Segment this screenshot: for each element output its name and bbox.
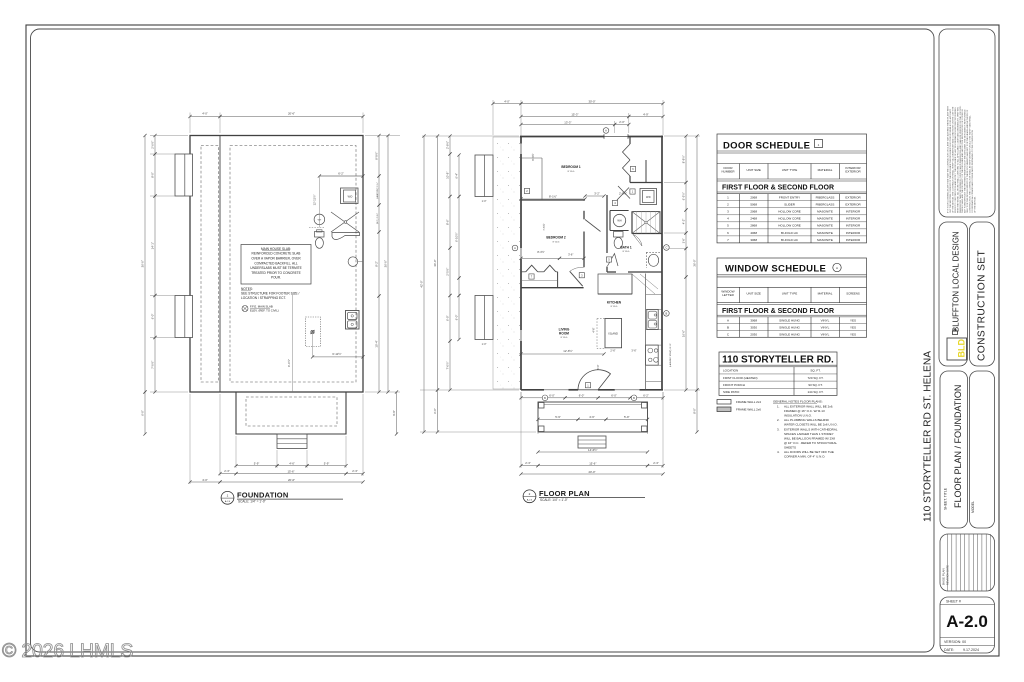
BLD logo [947,330,967,361]
designer name box BLUFFTON LOCAL DESIGN [939,222,968,366]
svg-text:B: B [666,312,668,316]
svg-text:8'-6": 8'-6" [446,219,450,225]
svg-text:POUR.: POUR. [271,276,281,280]
svg-text:WINDOW SCHEDULE: WINDOW SCHEDULE [725,264,826,275]
svg-text:6'-0": 6'-0" [433,408,437,414]
foundation water heater WH [314,214,325,225]
svg-text:SPACES LARGER THAN 1 STOREY: SPACES LARGER THAN 1 STOREY [784,432,834,436]
svg-text:3068: 3068 [750,319,757,323]
wall legend [717,400,761,412]
floor plan top dimensions [491,99,664,135]
floor plan left dimension chains [420,134,536,433]
svg-text:OF THE DESIGN.: OF THE DESIGN. [974,196,976,213]
svg-text:LOCATION / STRAPPING ECT.: LOCATION / STRAPPING ECT. [241,296,286,300]
110 storyteller rd area table [719,352,837,395]
bedroom 1 closet bifold door 6 [623,137,631,183]
svg-text:5'-9": 5'-9" [324,462,330,466]
svg-text:1'-0": 1'-0" [482,200,487,203]
svg-text:13'-3": 13'-3" [564,120,571,124]
svg-text:FIBERGLASS: FIBERGLASS [816,196,835,200]
finished floor elevation marker [242,305,279,313]
svg-text:8' CLG: 8' CLG [553,241,560,243]
bedroom 2 right wall and door 2 [583,211,585,267]
sheet number box A-2.0 [940,597,995,653]
svg-text:SHEET #: SHEET # [946,600,961,604]
svg-text:SINGLE HUNG: SINGLE HUNG [779,326,800,330]
svg-text:2'-6½": 2'-6½" [151,141,155,149]
svg-text:BATH 1: BATH 1 [620,246,632,250]
foundation bottom porch dimensions [188,394,364,484]
svg-text:2'-3": 2'-3" [653,461,659,465]
svg-text:HOLLOW CORE: HOLLOW CORE [778,210,801,214]
svg-text:110 STORYTELLER RD.: 110 STORYTELLER RD. [722,354,834,365]
svg-text:@ 16" O.C. .REFER TO STRUCTURA: @ 16" O.C. .REFER TO STRUCTURAL [784,441,837,445]
svg-text:15'-6": 15'-6" [589,461,596,465]
svg-text:BLD: BLD [957,339,967,358]
svg-text:MATERIAL: MATERIAL [818,168,833,172]
svg-text:BEDROOM 1: BEDROOM 1 [561,165,581,169]
svg-text:9.17.2024: 9.17.2024 [963,648,979,652]
svg-text:6'-0": 6'-0" [151,314,155,320]
svg-text:INTERIOR: INTERIOR [846,210,861,214]
svg-text:MASONITE: MASONITE [817,231,833,235]
svg-text:B: B [727,326,729,330]
svg-text:KITCHEN: KITCHEN [607,301,622,305]
svg-text:A-2.0: A-2.0 [946,612,988,631]
svg-text:VERSION: 00: VERSION: 00 [944,640,966,644]
svg-text:2'-3": 2'-3" [525,461,531,465]
svg-text:ROOM: ROOM [559,332,569,336]
svg-text:UNIT SIZE: UNIT SIZE [746,292,760,296]
front entry door 1 with swing arc [578,370,611,390]
svg-text:4'-0": 4'-0" [202,478,208,482]
bedroom 1 bottom wall [521,199,585,201]
svg-text:YES: YES [850,319,856,323]
svg-text:8' CLG: 8' CLG [568,171,575,173]
svg-text:BI-FOLD HC: BI-FOLD HC [781,231,799,235]
svg-text:8' CLG: 8' CLG [561,337,568,339]
svg-text:6'-0": 6'-0" [141,410,145,416]
main house slab note box [241,245,311,285]
svg-text:36'-0": 36'-0" [141,260,145,267]
foundation left dimension chain [150,134,188,394]
foundation left footing pad upper [175,154,193,196]
svg-text:SHEETS: SHEETS [784,445,796,449]
svg-text:4'-6": 4'-6" [592,327,596,332]
svg-text:7'-5½": 7'-5½" [542,223,546,230]
hall door swings [570,220,618,287]
living room label [559,328,570,340]
svg-text:SINGLE HUNG: SINGLE HUNG [779,332,800,336]
svg-text:4'-0": 4'-0" [202,112,208,116]
svg-text:A: A [605,129,607,133]
foundation porch slab [236,392,346,434]
svg-text:EXTERIOR WALLS WITH CATHEDRAL: EXTERIOR WALLS WITH CATHEDRAL [784,427,838,431]
svg-text:2'-5½": 2'-5½" [619,192,627,196]
svg-text:FRAMED @ 16" O.C. W/ R-13: FRAMED @ 16" O.C. W/ R-13 [784,409,825,413]
svg-text:2868: 2868 [750,224,757,228]
svg-text:4'-2": 4'-2" [682,219,686,225]
svg-text:8'-1½": 8'-1½" [549,195,557,199]
svg-text:BEDROOM 2: BEDROOM 2 [546,236,566,240]
svg-text:EXTERIOR: EXTERIOR [845,169,861,173]
svg-text:MASONITE: MASONITE [817,210,833,214]
svg-text:BLUFFTON LOCAL DESIGN: BLUFFTON LOCAL DESIGN [952,231,961,332]
foundation shower drain cross [331,212,359,232]
svg-text:6'-0": 6'-0" [446,315,450,321]
hall and bath partition walls [607,195,662,272]
svg-text:SIDE PATIO: SIDE PATIO [723,390,740,394]
svg-text:3030: 3030 [750,326,757,330]
kitchen top counter and corner cabinet [598,274,658,294]
foundation main slab dashed edge [230,146,356,383]
svg-text:A: A [836,266,838,270]
bedroom 2 closet with bifold doors [521,265,584,288]
svg-text:2'-8½": 2'-8½" [446,141,450,149]
svg-text:6'-5½": 6'-5½" [682,192,686,200]
foundation lavatory rough-in [348,257,363,267]
svg-text:3'-6": 3'-6" [631,349,636,353]
model box [970,371,995,528]
revision table [940,534,995,591]
foundation notes text [241,287,300,300]
foundation washer-dryer rough-in W/D [341,188,359,204]
svg-text:EXTERIOR: EXTERIOR [845,196,861,200]
svg-text:A-2.0: A-2.0 [225,500,231,503]
bath vanity with sink [646,252,660,268]
floor plan exterior walls [520,134,663,390]
svg-text:2'-5½": 2'-5½" [446,268,450,276]
svg-text:12'-6½": 12'-6½" [563,349,572,353]
svg-text:WATER CLOSETS WILL BE 2x6 U.N.: WATER CLOSETS WILL BE 2x6 U.N.O. [784,423,838,427]
svg-text:ALL EXTERIOR WALL WILL BE 2x6.: ALL EXTERIOR WALL WILL BE 2x6. [784,405,833,409]
svg-text:COMPACTED BACKFILL. ALL: COMPACTED BACKFILL. ALL [254,261,298,265]
svg-text:7'-0½": 7'-0½" [446,362,450,370]
title strip disclaimer box [939,29,995,217]
svg-text:FRONT ENTRY: FRONT ENTRY [779,196,800,200]
svg-text:8'-9½": 8'-9½" [375,152,379,160]
floor plan left footing pad lower [475,296,493,347]
svg-text:YES: YES [850,326,856,330]
kitchen counter and appliances [646,274,662,390]
svg-text:B: B [633,396,635,400]
svg-text:FRONT PORCH: FRONT PORCH [723,383,745,387]
svg-text:FOUNDATION: FOUNDATION [237,491,288,500]
svg-text:NOTES:: NOTES: [241,287,253,291]
svg-text:INTERIOR: INTERIOR [846,238,861,242]
svg-text:W/D: W/D [348,195,353,198]
svg-text:A: A [727,319,729,323]
svg-text:2'-3": 2'-3" [224,469,230,473]
svg-text:8' CLG: 8' CLG [611,306,618,308]
svg-text:UNIT SIZE: UNIT SIZE [746,168,760,172]
svg-text:A: A [514,246,516,250]
svg-text:14'-1": 14'-1" [151,242,155,249]
bath toilet [614,232,624,249]
svg-text:MASONITE: MASONITE [817,224,833,228]
svg-text:3'-6": 3'-6" [683,238,686,243]
foundation title [221,491,343,505]
bedroom 1 label [561,165,581,173]
svg-text:BASE PLAN: BASE PLAN [942,568,946,585]
foundation tub outline [332,233,360,240]
svg-text:4'-0": 4'-0" [504,99,510,103]
svg-text:MAIN HOUSE SLAB:: MAIN HOUSE SLAB: [261,247,291,251]
water heater WH [613,214,625,226]
svg-text:YES: YES [850,332,856,336]
svg-text:FIRST FLOOR & SECOND FLOOR: FIRST FLOOR & SECOND FLOOR [722,185,834,192]
address vertical text [923,351,934,522]
svg-text:3'-2": 3'-2" [594,192,600,196]
svg-text:INTERIOR: INTERIOR [846,224,861,228]
svg-text:15'-3": 15'-3" [571,112,578,116]
svg-text:36'-0": 36'-0" [693,259,697,266]
svg-text:6'-0": 6'-0" [455,315,459,321]
svg-text:SLIDER: SLIDER [784,203,796,207]
svg-text:9'-9": 9'-9" [392,410,396,416]
svg-text:110 STORYTELLER RD ST. HELENA: 110 STORYTELLER RD ST. HELENA [923,351,934,522]
svg-text:NUMBER: NUMBER [721,169,735,173]
foundation overall right dimension 36'-0" [384,134,399,436]
svg-text:3068: 3068 [750,238,757,242]
svg-text:FRAME WALL 2x4: FRAME WALL 2x4 [736,400,761,404]
svg-text:42'-0": 42'-0" [420,280,424,287]
svg-text:FLOOR PLAN / FOUNDATION: FLOOR PLAN / FOUNDATION [953,385,963,508]
svg-text:LOCATION: LOCATION [723,369,738,373]
svg-text:VINYL: VINYL [821,319,830,323]
svg-text:6'-2": 6'-2" [338,172,344,176]
svg-text:HOLLOW CORE: HOLLOW CORE [778,224,801,228]
svg-text:10'-4": 10'-4" [375,340,379,347]
svg-text:8'-9½": 8'-9½" [682,155,686,163]
svg-text:© 2026 LHMLS: © 2026 LHMLS [2,640,133,662]
svg-text:10'-9": 10'-9" [446,172,450,179]
svg-text:ISLAND: ISLAND [609,332,618,336]
svg-text:W/D: W/D [646,196,651,199]
svg-text:4'-6": 4'-6" [289,462,295,466]
construction set box [970,222,995,366]
floor plan left footing pad upper [475,155,493,203]
svg-text:20'-6": 20'-6" [288,112,295,116]
svg-text:2030: 2030 [750,332,757,336]
kitchen island [597,319,622,349]
svg-text:14'-6½": 14'-6½" [588,448,597,452]
general notes floor plans [773,400,838,459]
washer dryer unit W/D [640,189,657,205]
svg-text:A-2.0: A-2.0 [527,499,533,502]
svg-text:SCREENS: SCREENS [846,292,860,296]
floor plan side patio slab [493,137,521,389]
foundation top dimension 4'-0" / 20'-6" [188,112,364,133]
svg-text:1'-0": 1'-0" [482,343,487,346]
svg-text:8'-0": 8'-0" [151,172,155,178]
floor plan interior dimensions [512,153,669,369]
svg-text:LETTER: LETTER [722,293,734,297]
svg-text:DOOR SCHEDULE: DOOR SCHEDULE [723,141,810,152]
foundation kitchen sink rough-in [346,311,360,330]
svg-text:6'-0": 6'-0" [549,393,555,397]
svg-text:EXTERIOR: EXTERIOR [845,203,861,207]
svg-text:8'-2": 8'-2" [375,261,379,267]
svg-text:UNIT TYPE: UNIT TYPE [782,168,798,172]
foundation patio slab dashed edge [201,146,219,383]
svg-text:UNDERSLABS MUST BE TERMITE: UNDERSLABS MUST BE TERMITE [250,266,301,270]
svg-text:8' CLG: 8' CLG [623,251,630,253]
svg-text:4.: 4. [777,450,780,454]
svg-text:93 SQ. FT.: 93 SQ. FT. [808,383,823,387]
svg-text:INTERIOR: INTERIOR [846,217,861,221]
svg-text:GENERAL NOTES FLOOR PLANS:: GENERAL NOTES FLOOR PLANS: [773,400,823,404]
svg-text:4'-9": 4'-9" [643,112,649,116]
svg-text:OVER A VAPOR BARRIER, OVER: OVER A VAPOR BARRIER, OVER [251,257,301,261]
svg-text:5068: 5068 [750,203,757,207]
svg-text:20'-6": 20'-6" [288,478,295,482]
foundation toilet rough-in [315,230,325,249]
svg-text:2468: 2468 [750,217,757,221]
svg-text:SCALE: 1/4" = 1'-0": SCALE: 1/4" = 1'-0" [540,498,568,502]
svg-text:6'-4": 6'-4" [455,173,459,179]
svg-text:6'-0": 6'-0" [579,393,585,397]
svg-text:6'-4½": 6'-4½" [531,153,535,160]
foundation interior dim 6'-2" [309,172,365,228]
svg-text:30'-0": 30'-0" [588,99,595,103]
svg-text:INTERIOR: INTERIOR [846,231,861,235]
svg-text:144 SQ. FT.: 144 SQ. FT. [807,390,823,394]
bedroom 2 label [546,236,566,244]
svg-text:ALL DOORS WILL BE SET OFF THE: ALL DOORS WILL BE SET OFF THE [784,450,834,454]
svg-text:DATE:: DATE: [944,648,954,652]
svg-text:WH: WH [617,219,621,223]
foundation island footprint dashed [306,317,321,347]
svg-text:2.: 2. [777,418,780,422]
svg-text:2'-3": 2'-3" [352,469,358,473]
closet / W-D divider wall [630,160,662,183]
svg-text:B: B [544,396,546,400]
svg-text:5'-9": 5'-9" [624,415,630,419]
svg-text:HOLLOW CORE: HOLLOW CORE [778,217,801,221]
floor plan right dimension chains [664,134,700,433]
copyright watermark [2,640,133,662]
svg-text:SCALE: 1/4" = 1'-0": SCALE: 1/4" = 1'-0" [238,500,266,504]
svg-text:2068: 2068 [750,210,757,214]
svg-text:CONSTRUCTION SET: CONSTRUCTION SET [977,250,988,361]
foundation plan outer wall [190,136,363,393]
svg-text:2'-6": 2'-6" [610,349,615,353]
svg-text:CORNER A MIN. OF 4" U.N.O.: CORNER A MIN. OF 4" U.N.O. [784,455,825,459]
svg-text:REINFORCED CONCRETE SLAB: REINFORCED CONCRETE SLAB [252,252,301,256]
svg-text:WILL BE BALLOON FRAMED W/ 2X8: WILL BE BALLOON FRAMED W/ 2X8 [784,436,835,440]
svg-text:3.: 3. [777,427,780,431]
svg-text:6'-6½": 6'-6½" [287,359,291,367]
svg-text:SQ. FT.: SQ. FT. [810,369,820,373]
svg-text:6'-0": 6'-0" [611,393,617,397]
foundation interior dim 6'-11" [287,294,365,392]
svg-text:4'-6": 4'-6" [589,415,595,419]
porch steps [578,436,606,448]
svg-text:20'-0": 20'-0" [588,470,595,474]
svg-text:12'-11½": 12'-11½" [313,195,317,206]
svg-text:(LAUNDRY STRIP) 10'-10": (LAUNDRY STRIP) 10'-10" [669,343,672,367]
svg-text:VINYL: VINYL [821,326,830,330]
foundation right dimension chain [365,134,400,394]
shower with cross bracing [632,212,660,246]
svg-text:VINYL: VINYL [821,332,830,336]
bath door 3 swing [617,186,630,200]
svg-text:3'-6": 3'-6" [568,252,573,256]
svg-text:FRAME WALL 2x6: FRAME WALL 2x6 [736,408,761,412]
front porch [538,402,648,432]
svg-text:36'-0": 36'-0" [433,259,437,266]
svg-text:5'-9": 5'-9" [254,462,260,466]
svg-text:FIBERGLASS: FIBERGLASS [816,203,835,207]
svg-text:MODEL: MODEL [971,501,975,513]
svg-text:MATERIAL: MATERIAL [818,292,833,296]
svg-text:7'-0½": 7'-0½" [151,361,155,369]
svg-text:ALL PLUMBING WALLS BEHIND: ALL PLUMBING WALLS BEHIND [784,418,830,422]
foundation left footing pad lower [175,296,193,338]
window schedule table [717,258,867,337]
svg-text:5'-9": 5'-9" [555,415,561,419]
svg-text:FIRST FLOOR & SECOND FLOOR: FIRST FLOOR & SECOND FLOOR [722,308,834,315]
svg-text:1.: 1. [777,405,780,409]
foundation overall left dimension 36'-0" [141,134,147,436]
svg-text:FLOOR PLAN: FLOOR PLAN [539,489,590,498]
svg-text:SHEET. TITLE: SHEET. TITLE [944,487,948,510]
svg-text:UNIT TYPE: UNIT TYPE [782,292,798,296]
svg-text:C: C [665,246,667,250]
svg-text:MASONITE: MASONITE [817,238,833,242]
svg-text:2'-0": 2'-0" [619,120,625,124]
foundation porch steps [277,434,307,449]
svg-text:5'-0": 5'-0" [596,364,600,369]
svg-text:MASONITE: MASONITE [817,217,833,221]
floor plan porch dimensions [519,392,664,476]
bath 1 room label [620,246,632,254]
sheet title box FLOOR PLAN / FOUNDATION [940,371,968,528]
svg-text:ELEV. (REF. TO CIVIL): ELEV. (REF. TO CIVIL) [250,309,279,313]
kitchen room label [607,301,622,309]
svg-text:SINGLE HUNG: SINGLE HUNG [779,319,800,323]
svg-text:6'-2": 6'-2" [643,393,649,397]
svg-text:2068: 2068 [750,196,757,200]
svg-text:6'-11½": 6'-11½" [332,352,341,356]
svg-text:8'-0": 8'-0" [693,408,697,414]
svg-text:6'-10½": 6'-10½" [455,233,459,242]
door schedule table [717,134,867,243]
svg-text:720 SQ. FT.: 720 SQ. FT. [807,376,823,380]
svg-text:BI-FOLD HC: BI-FOLD HC [781,238,799,242]
svg-text:16'-0": 16'-0" [682,330,686,337]
svg-text:36'-0": 36'-0" [384,260,388,267]
svg-text:15'-6": 15'-6" [287,469,294,473]
svg-text:TREATED PRIOR TO CONCRETE: TREATED PRIOR TO CONCRETE [251,271,301,275]
svg-text:INSULATION U.N.O.: INSULATION U.N.O. [784,414,812,418]
floor plan title [523,489,645,503]
svg-text:FIRST FLOOR (HEATED): FIRST FLOOR (HEATED) [723,376,758,380]
svg-text:8'-4½": 8'-4½" [537,250,544,254]
svg-text:4068: 4068 [750,231,757,235]
